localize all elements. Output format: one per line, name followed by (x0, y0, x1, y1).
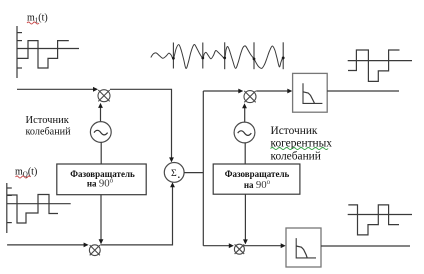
oscillator G1 (90, 122, 111, 143)
arrowhead down into M3 (99, 239, 104, 244)
wire oscillator G1 up to M1 (100, 107, 102, 122)
arrowhead up into summer bottom (170, 182, 175, 187)
phase shifter box B1 (57, 164, 146, 195)
wire B2 down to M5 (244, 194, 246, 240)
wire M4 to filter F1 (256, 90, 288, 92)
output waveform Q (bottom right) axis (348, 214, 412, 216)
wire B1 down to M3 (100, 195, 102, 240)
summer S (164, 163, 184, 183)
arrowhead up into M1 (98, 103, 103, 108)
arrowhead up into M4 (242, 103, 247, 108)
wire bus to M4 (203, 90, 239, 92)
waveform mQ axes (7, 183, 71, 233)
wire M3 to corner and up to summer (100, 187, 172, 245)
wire F2 out (321, 245, 410, 247)
multiplier M1 (98, 90, 110, 102)
svg-text:на 90o: на 90o (87, 176, 114, 189)
label m1(t) (27, 13, 48, 25)
wire G1 down to phase box B1 (100, 142, 102, 164)
multiplier M4 (244, 91, 256, 103)
waveform mQ signal (7, 195, 58, 224)
multiplier M3 (89, 245, 100, 256)
arrowhead into summer top (169, 157, 174, 162)
svg-text:Σ: Σ (171, 168, 177, 179)
filter box F1 (293, 73, 328, 112)
wire oscillator G2 up to M4 (244, 108, 246, 123)
wire M5 to filter F2 (244, 245, 282, 247)
waveform m1 signal (17, 41, 69, 68)
arrowhead into M3 (84, 243, 89, 248)
oscillator G2 (234, 122, 255, 143)
wire bottom input (7, 244, 84, 246)
output waveform I signal (348, 50, 400, 81)
svg-text:на 90o: на 90o (244, 178, 271, 191)
svg-text:колебаний: колебаний (26, 126, 72, 137)
svg-text:Фазовращатель: Фазовращатель (225, 169, 290, 179)
arrowhead into M4 (238, 89, 243, 94)
multiplier M5 (234, 244, 244, 254)
wire G2 down to phase box B2 (244, 143, 246, 164)
modulated signal: symbol boundary bars (173, 42, 283, 69)
svg-text:Источник: Источник (271, 125, 318, 137)
filter box F2 (286, 228, 321, 267)
svg-text:Источник: Источник (26, 115, 70, 126)
waveform m1 axes (17, 26, 79, 78)
arrowhead into multiplier M1 (93, 87, 98, 92)
wire top input (17, 88, 93, 90)
arrowhead into F1 (287, 89, 292, 94)
wire F1 out (327, 90, 399, 92)
output waveform I (top right) axis (348, 60, 412, 62)
node dots on bars (172, 57, 285, 61)
wire M1 to corner and down to summer (110, 89, 172, 159)
output waveform Q signal (348, 205, 399, 235)
bus vertical line (202, 91, 204, 246)
phase shifter box B2 (213, 164, 300, 194)
arrowhead into F2 (281, 243, 286, 248)
label mQ(t) (15, 167, 37, 179)
green squiggle under word (271, 148, 329, 150)
modulated signal wave (151, 45, 283, 69)
svg-text:колебаний: колебаний (271, 151, 321, 163)
arrowhead into M5 (229, 243, 234, 248)
wire summer out to bus (184, 172, 203, 174)
wire bus to M5 (203, 245, 229, 247)
arrowhead down into M5 (243, 239, 248, 244)
